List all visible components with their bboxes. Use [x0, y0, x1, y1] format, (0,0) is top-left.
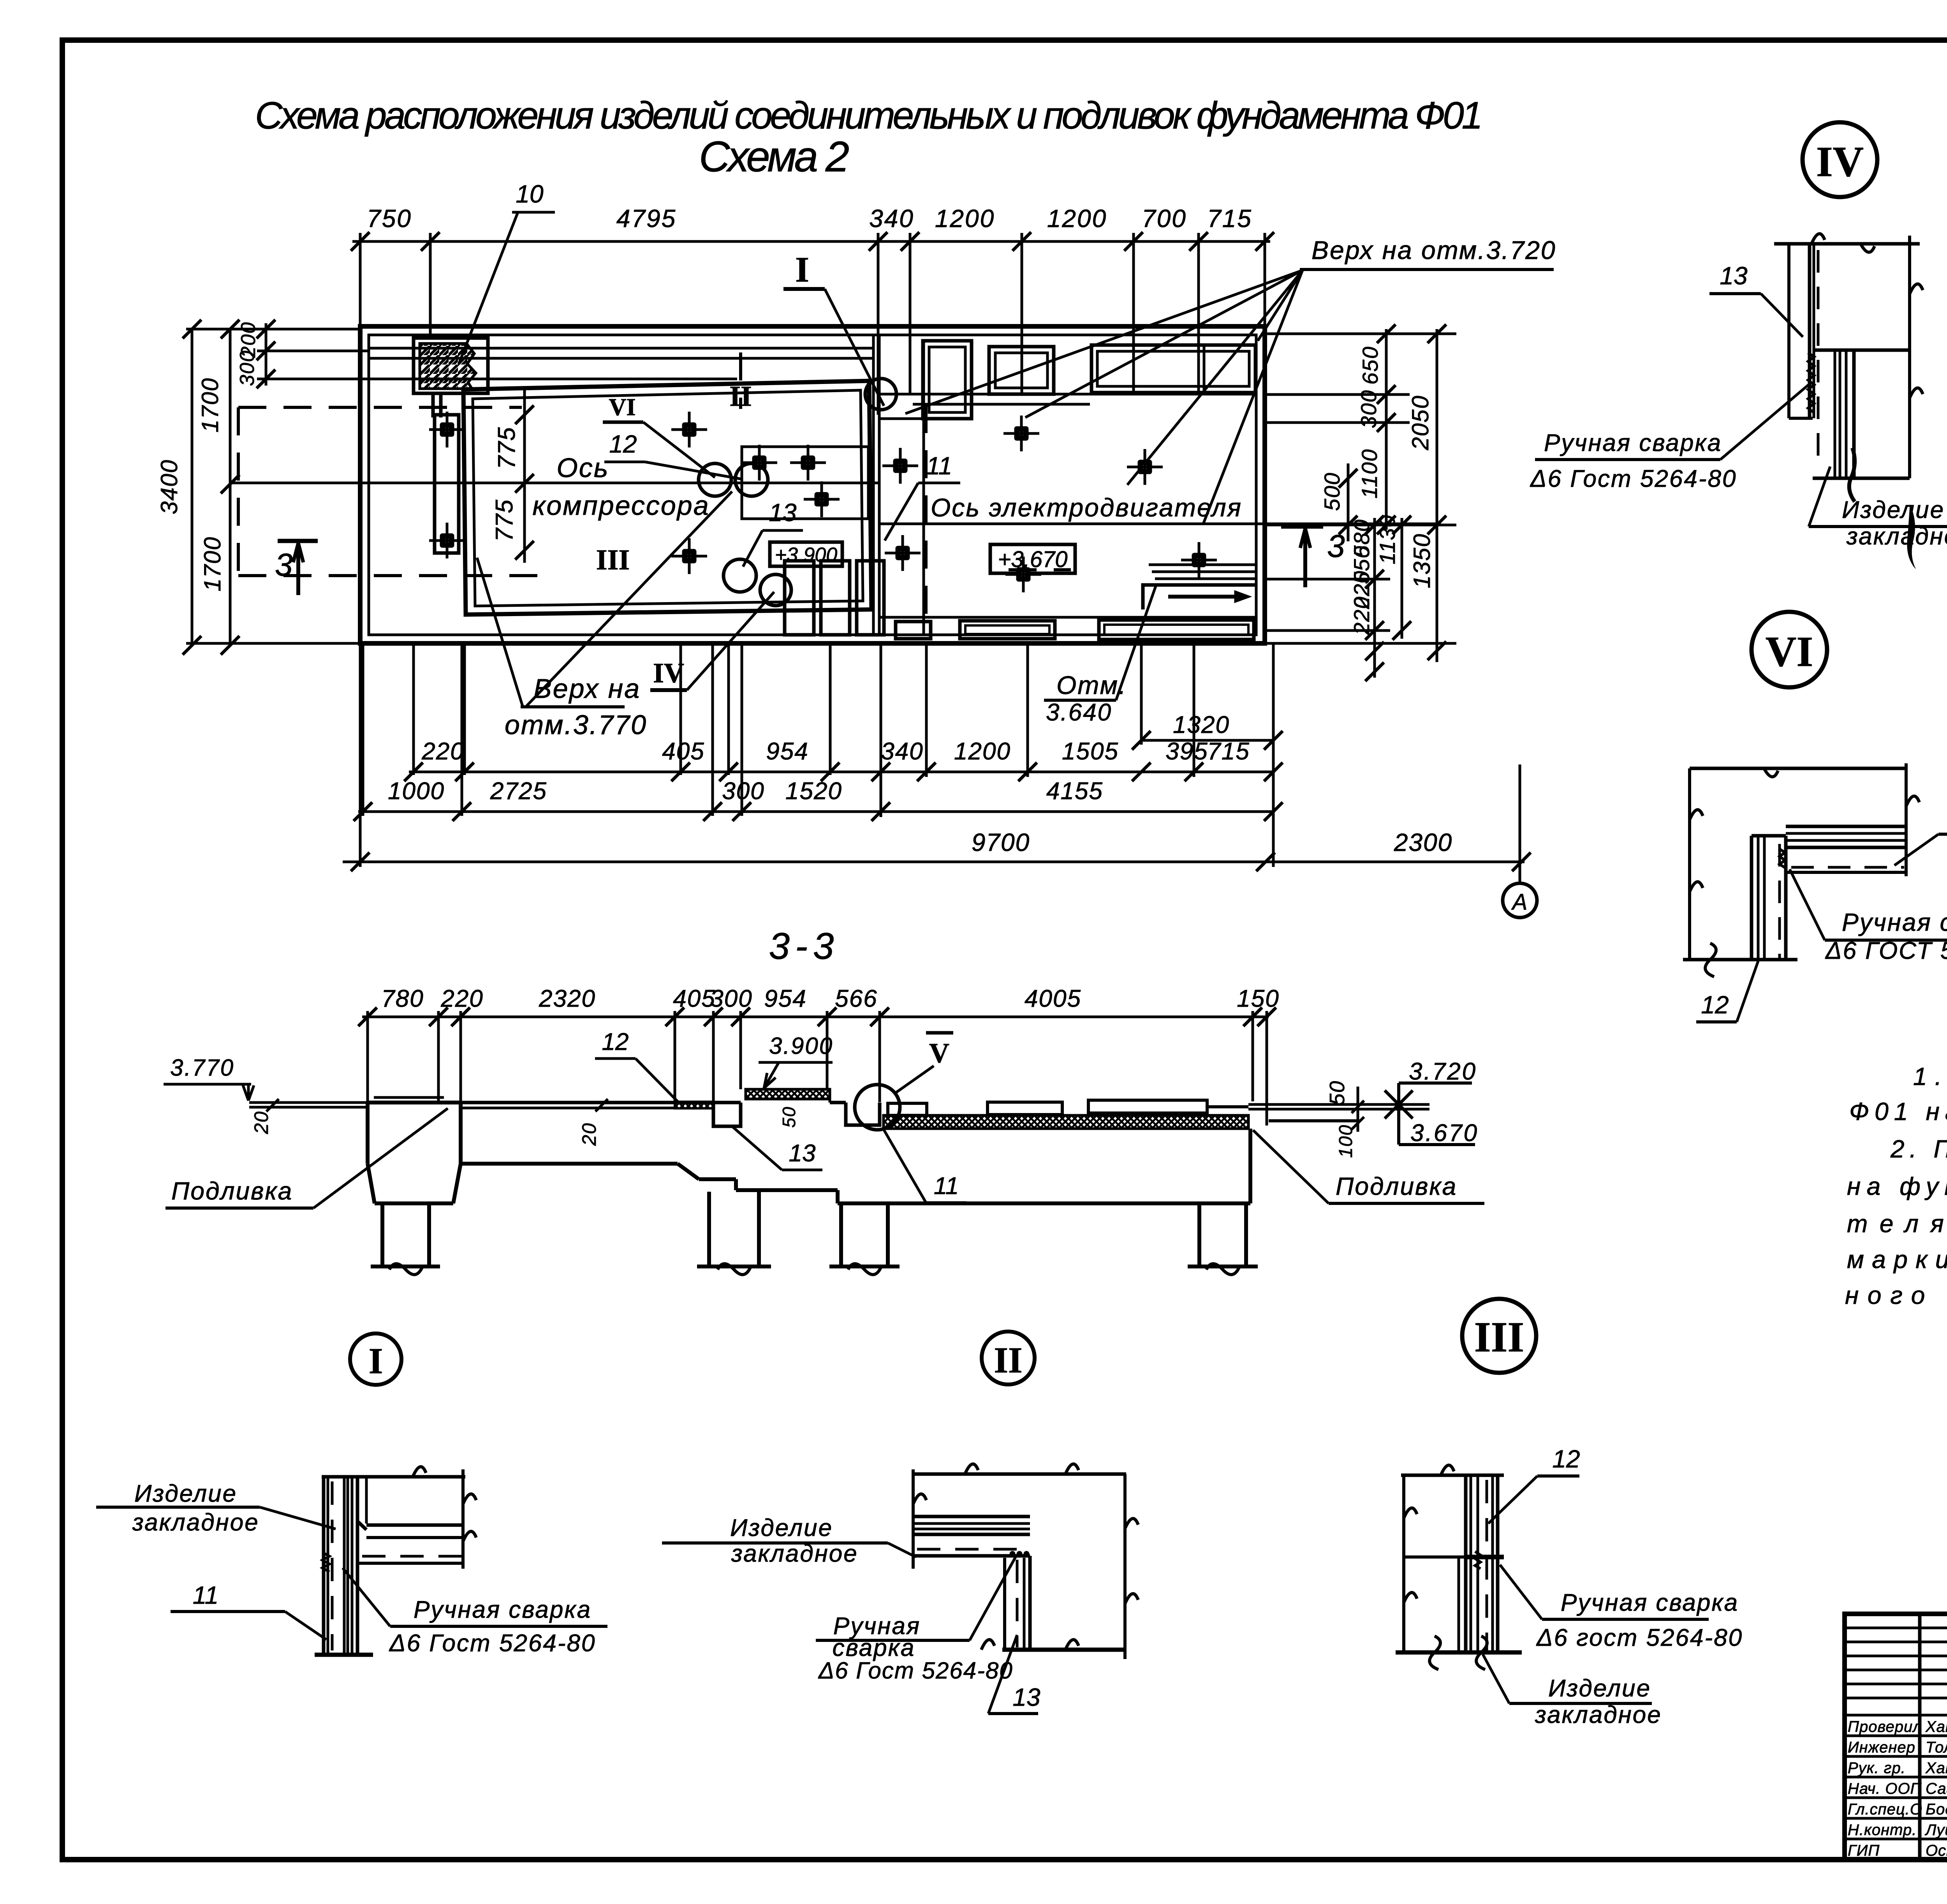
svg-text:2050: 2050	[1407, 395, 1433, 450]
svg-text:IV: IV	[653, 657, 684, 689]
svg-text:закладное: закладное	[132, 1509, 259, 1536]
svg-text:Схема расположения изделий сое: Схема расположения изделий соединительны…	[255, 94, 1484, 137]
svg-text:50: 50	[1326, 1080, 1349, 1105]
svg-text:Δ6 гост 5264-80: Δ6 гост 5264-80	[1536, 1624, 1743, 1651]
svg-text:1200: 1200	[935, 204, 995, 232]
detail IV top line	[1774, 242, 1920, 246]
svg-text:954: 954	[764, 985, 806, 1012]
detail VI circle	[1752, 612, 1827, 687]
svg-text:1520: 1520	[785, 778, 842, 805]
middle piers	[707, 1192, 711, 1266]
left extension lines	[186, 328, 360, 331]
motor axis centerline	[879, 523, 1441, 525]
svg-text:Подливка: Подливка	[171, 1177, 293, 1205]
svg-text:I: I	[369, 1341, 383, 1381]
section left block	[374, 1096, 444, 1099]
svg-text:Ханин: Ханин	[1925, 1718, 1947, 1735]
section top dimension chain	[362, 1016, 1269, 1018]
detail VI left vertical	[1688, 768, 1691, 960]
detail II laminated beam	[913, 1515, 1030, 1518]
+3.900 boxed level	[770, 542, 842, 566]
svg-text:II: II	[994, 1340, 1022, 1381]
svg-text:395: 395	[1165, 738, 1208, 765]
svg-text:отм.3.770: отм.3.770	[505, 710, 647, 740]
detail II top line	[913, 1472, 1126, 1476]
left anchor plate	[435, 415, 459, 553]
plan inner outline	[369, 335, 1256, 635]
svg-text:13: 13	[769, 498, 797, 527]
detail VI top line	[1690, 767, 1906, 770]
svg-text:Рук. гр.: Рук. гр.	[1848, 1760, 1906, 1777]
svg-text:12: 12	[602, 1029, 629, 1055]
svg-text:1200: 1200	[954, 738, 1011, 765]
grout strip (podlivka) under motor	[884, 1115, 1248, 1129]
svg-text:11: 11	[934, 1173, 959, 1199]
pocket 300	[713, 1103, 741, 1126]
svg-text:Бодрученко: Бодрученко	[1926, 1801, 1947, 1818]
detail IV right vertical	[1908, 236, 1911, 478]
svg-text:4155: 4155	[1046, 778, 1103, 805]
svg-text:Подливка: Подливка	[1336, 1172, 1457, 1200]
svg-text:20: 20	[578, 1122, 600, 1146]
svg-text:405: 405	[662, 738, 704, 765]
svg-text:12: 12	[609, 430, 637, 458]
plate at 3.900	[746, 1089, 830, 1099]
right dim 580/550/220/220	[1373, 518, 1376, 678]
svg-text:Δ6 Гост 5264-80: Δ6 Гост 5264-80	[818, 1657, 1013, 1684]
svg-text:12: 12	[1701, 991, 1729, 1019]
middle plate	[742, 447, 868, 519]
detail I beam	[357, 1475, 465, 1479]
svg-text:3400: 3400	[156, 459, 182, 514]
svg-text:III: III	[596, 544, 630, 576]
left small dims 200/300	[265, 323, 268, 386]
svg-text:Саакьянц: Саакьянц	[1926, 1780, 1947, 1797]
ink blot artifact	[1907, 505, 1915, 569]
detail III bottom line	[1396, 1650, 1522, 1655]
svg-text:3-3: 3-3	[769, 925, 840, 967]
detail circle III	[1462, 1299, 1536, 1373]
svg-text:Ханин: Ханин	[1925, 1760, 1947, 1777]
svg-text:теля выполнить: теля выполнить подливку бетоном	[1847, 1210, 1947, 1238]
svg-text:775: 775	[491, 499, 518, 541]
svg-text:405: 405	[673, 985, 715, 1012]
svg-text:Ручная сварка: Ручная сварка	[1544, 430, 1722, 456]
detail VI bottom line	[1683, 958, 1797, 962]
svg-text:Нач. ООП: Нач. ООП	[1848, 1780, 1922, 1797]
svg-text:Осташевски: Осташевски	[1926, 1842, 1947, 1859]
detail V circle on section	[855, 1085, 900, 1130]
compressor block outline	[463, 381, 871, 615]
svg-text:13: 13	[789, 1140, 816, 1167]
svg-text:1350: 1350	[1409, 533, 1435, 588]
anchors (embedded items)	[429, 412, 465, 447]
svg-text:1130: 1130	[1375, 514, 1400, 564]
svg-text:4005: 4005	[1025, 985, 1081, 1012]
dashed outline (equipment)	[238, 406, 522, 409]
svg-text:Δ6 Гост 5264-80: Δ6 Гост 5264-80	[389, 1630, 596, 1657]
svg-text:Н.контр.: Н.контр.	[1848, 1821, 1917, 1839]
svg-text:2300: 2300	[1394, 828, 1452, 856]
leader fan to plan top openings	[905, 270, 1303, 414]
stem below patch	[431, 393, 435, 417]
svg-text:750: 750	[367, 204, 412, 232]
detail II column	[1003, 1558, 1006, 1649]
svg-text:3.900: 3.900	[769, 1033, 833, 1059]
svg-text:Схема 2: Схема 2	[699, 133, 851, 181]
left dimension 1700/1700	[229, 329, 232, 645]
svg-text:300: 300	[1356, 389, 1381, 428]
approach grade line	[249, 1101, 368, 1104]
svg-text:Ручная сварка: Ручная сварка	[1561, 1589, 1739, 1616]
section middle body top surface	[461, 1101, 741, 1104]
detail circle II	[982, 1332, 1035, 1384]
svg-text:Проверил: Проверил	[1848, 1718, 1922, 1735]
svg-text:11: 11	[926, 452, 952, 480]
detail I column	[322, 1477, 326, 1654]
svg-text:340: 340	[881, 738, 923, 765]
detail I column foot	[315, 1653, 373, 1657]
svg-text:2725: 2725	[490, 778, 547, 805]
svg-text:300: 300	[236, 350, 259, 386]
right extension lines	[1265, 333, 1456, 335]
svg-text:III: III	[1474, 1313, 1524, 1361]
middle wall verticals	[872, 335, 875, 635]
signature table	[1918, 1614, 1922, 1860]
svg-text:1100: 1100	[1357, 449, 1382, 498]
svg-text:2. После окончательной: 2. После окончательной установки агрегат…	[1890, 1135, 1947, 1163]
svg-text:А: А	[1511, 889, 1528, 915]
channel slots	[785, 561, 814, 635]
svg-text:Луценко: Луценко	[1924, 1821, 1947, 1839]
svg-text:11: 11	[193, 1581, 218, 1609]
svg-text:I: I	[795, 250, 809, 289]
svg-text:13: 13	[1012, 1683, 1040, 1711]
svg-text:марки 200, остальная: марки 200, остальная подливка из цемент-	[1847, 1245, 1947, 1273]
svg-text:1505: 1505	[1062, 738, 1119, 765]
svg-text:VI: VI	[609, 394, 636, 421]
detail IV circle	[1803, 122, 1877, 197]
detail circle I	[350, 1333, 401, 1385]
weld marks	[322, 1552, 329, 1572]
plates on strip	[888, 1103, 927, 1115]
svg-text:954: 954	[766, 738, 808, 765]
axis A circle	[1519, 764, 1521, 883]
detail II bottom line	[1002, 1648, 1126, 1652]
svg-text:Верх на: Верх на	[533, 673, 641, 704]
svg-text:Инженер: Инженер	[1848, 1739, 1915, 1756]
level arrow crosses	[1385, 1090, 1413, 1118]
right step area	[1149, 564, 1256, 566]
hatched weld patch (item 10)	[414, 338, 488, 393]
svg-text:1320: 1320	[1173, 712, 1230, 738]
right dim 2050 / 1350	[1436, 329, 1438, 662]
svg-text:50: 50	[779, 1106, 799, 1127]
section body bottom profile	[461, 1162, 678, 1166]
compressor axis centerline	[230, 482, 879, 484]
svg-text:Ручная сварка: Ручная сварка	[1842, 908, 1947, 936]
svg-text:566: 566	[835, 985, 877, 1012]
svg-text:300: 300	[722, 778, 764, 805]
svg-text:500: 500	[1320, 472, 1344, 511]
svg-text:220: 220	[440, 985, 483, 1012]
svg-text:715: 715	[1207, 738, 1250, 765]
detail circles on compressor axis	[699, 463, 731, 496]
detail VI right vertical	[1905, 763, 1908, 876]
svg-text:ного раствора марки: ного раствора марки 150	[1845, 1281, 1947, 1309]
svg-text:закладное: закладное	[1535, 1701, 1662, 1728]
svg-text:IV: IV	[1816, 138, 1864, 185]
svg-text:Δ6 ГОСТ 5264-80: Δ6 ГОСТ 5264-80	[1825, 937, 1947, 964]
pocket 566	[846, 1103, 880, 1125]
svg-text:Верх на отм.3.720: Верх на отм.3.720	[1311, 236, 1556, 264]
svg-text:10: 10	[516, 180, 544, 208]
detail II right vertical	[1123, 1474, 1127, 1659]
detail circle at plan top right opening corner	[865, 379, 896, 410]
svg-text:Δ6 Гост 5264-80: Δ6 Гост 5264-80	[1530, 465, 1737, 492]
svg-text:3.670: 3.670	[1410, 1120, 1479, 1147]
ink squiggle artifact	[1849, 448, 1855, 502]
motor area horizontals	[913, 403, 1090, 406]
top dimension line (750,4795,340,1200,1200,700,715)	[352, 240, 1270, 243]
svg-text:3.640: 3.640	[1046, 699, 1112, 726]
svg-text:150: 150	[1237, 985, 1279, 1012]
detail IV plate 13	[1787, 244, 1790, 418]
svg-text:3: 3	[275, 547, 293, 583]
top openings in motor area	[923, 341, 972, 419]
main title block outline	[1845, 1614, 1947, 1860]
svg-text:1200: 1200	[1047, 204, 1107, 232]
svg-text:9700: 9700	[972, 828, 1030, 856]
detail III top line	[1401, 1474, 1504, 1477]
left pier	[380, 1203, 384, 1266]
svg-text:13: 13	[1720, 262, 1748, 290]
detail II left vertical	[912, 1469, 915, 1569]
svg-text:Гл.спец.О: Гл.спец.О	[1848, 1801, 1922, 1818]
svg-text:650: 650	[1358, 346, 1382, 384]
bottom dim row 1	[409, 771, 1274, 773]
svg-text:220: 220	[421, 738, 464, 765]
right dim 1130	[1401, 518, 1403, 639]
detail III middle line	[1404, 1555, 1466, 1559]
small dim 50/100 at right	[1357, 1087, 1359, 1132]
bottom extension lines	[412, 643, 415, 775]
svg-text:2320: 2320	[539, 985, 596, 1012]
weld zigzag	[1780, 849, 1785, 868]
svg-text:700: 700	[1142, 204, 1187, 232]
svg-text:20: 20	[250, 1111, 272, 1134]
svg-text:ГИП: ГИП	[1848, 1842, 1880, 1859]
svg-text:V: V	[929, 1037, 949, 1069]
right dim 500	[1347, 463, 1350, 541]
detail IV lower column	[1834, 350, 1836, 478]
svg-text:340: 340	[869, 204, 914, 232]
svg-text:4795: 4795	[616, 204, 676, 232]
+3.670 boxed level	[990, 544, 1075, 573]
detail IV horizontal split	[1813, 349, 1910, 352]
plan outer outline	[360, 326, 1265, 643]
svg-text:Изделие: Изделие	[134, 1480, 237, 1507]
weld squiggle	[1475, 1552, 1480, 1569]
weld dots	[1010, 1551, 1015, 1557]
svg-text:Ручная сварка: Ручная сварка	[414, 1596, 591, 1623]
svg-text:775: 775	[493, 426, 520, 469]
svg-text:100: 100	[1336, 1124, 1356, 1158]
svg-text:1. Все каналы в пред: 1. Все каналы в пределах фундамента	[1913, 1062, 1947, 1090]
detail VI column (12)	[1750, 836, 1753, 960]
right dim line 650/300/1100	[1385, 329, 1388, 530]
detail I beam end	[461, 1469, 465, 1569]
left dimension 3400	[191, 329, 194, 645]
svg-text:3.770: 3.770	[170, 1055, 234, 1081]
svg-text:Изделие: Изделие	[730, 1515, 833, 1541]
svg-text:на фундаменте Ф01 в пре: на фундаменте Ф01 в пределах электродвиг…	[1847, 1172, 1947, 1200]
motor bottom strip	[879, 616, 1256, 619]
svg-text:1000: 1000	[388, 778, 445, 805]
top dim extension lines	[359, 233, 362, 329]
bottom dim row 2	[358, 810, 1274, 813]
section arrow 3 (right)	[1281, 525, 1323, 529]
bottom dim row 3 (9700 / 2300)	[343, 861, 1525, 863]
svg-text:Изделие: Изделие	[1548, 1675, 1651, 1702]
svg-text:12: 12	[1552, 1445, 1580, 1473]
svg-text:Ф01 на отм. 3.800 пере: Ф01 на отм. 3.800 перекрыть рифленой ста…	[1849, 1097, 1947, 1125]
detail VI beam	[1786, 825, 1906, 828]
svg-text:Ось электродвигателя: Ось электродвигателя	[931, 493, 1242, 522]
dimension 775/775 inside plan	[523, 389, 526, 563]
svg-text:715: 715	[1207, 204, 1252, 232]
svg-text:3.720: 3.720	[1409, 1058, 1477, 1085]
svg-text:300: 300	[710, 985, 752, 1012]
svg-text:780: 780	[381, 985, 424, 1012]
svg-text:3: 3	[1327, 528, 1345, 564]
svg-text:1700: 1700	[197, 377, 223, 432]
detail III column verticals	[1464, 1475, 1468, 1652]
V mark	[926, 1031, 953, 1035]
svg-text:VI: VI	[1766, 628, 1813, 675]
svg-text:Ось: Ось	[556, 453, 609, 483]
svg-text:Толмачева: Толмачева	[1926, 1739, 1947, 1756]
detail III left vertical	[1402, 1475, 1405, 1652]
svg-text:1700: 1700	[199, 536, 225, 591]
svg-text:компрессора: компрессора	[532, 490, 709, 521]
svg-text:220: 220	[1349, 596, 1374, 635]
weld zigzag	[1808, 353, 1814, 413]
top band interior lines	[369, 347, 873, 350]
section arrow 3 (left)	[278, 539, 318, 543]
section dim extension verticals	[366, 1011, 369, 1101]
svg-text:Изделие: Изделие	[1842, 497, 1945, 523]
thin grout tail lines continuing right	[1248, 1103, 1429, 1106]
